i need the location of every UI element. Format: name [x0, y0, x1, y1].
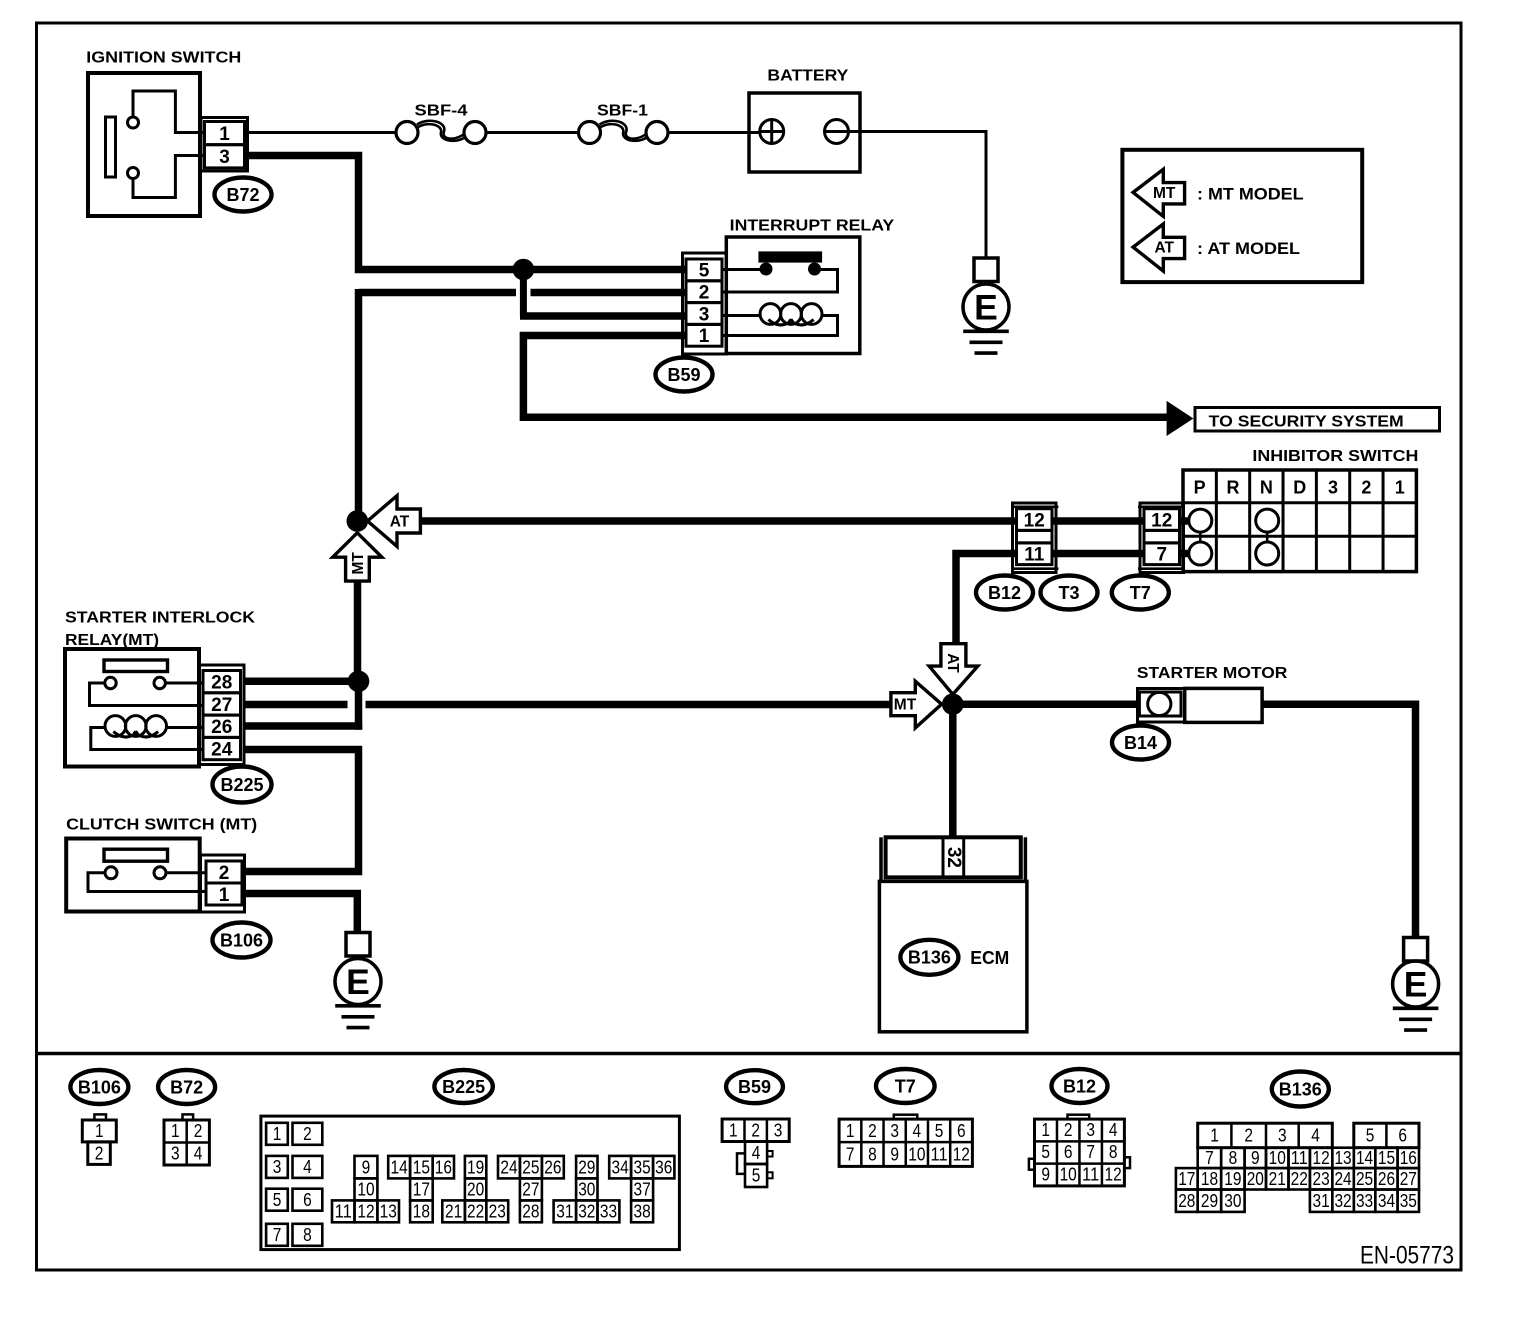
svg-text:11: 11	[335, 1201, 352, 1221]
svg-text:32: 32	[943, 847, 964, 868]
ignition switch box	[88, 73, 200, 216]
wire to relay pin 3	[520, 312, 686, 320]
svg-text:E: E	[1404, 965, 1428, 1005]
svg-text:13: 13	[1334, 1148, 1351, 1168]
svg-text:T3: T3	[1058, 583, 1079, 603]
svg-text:3: 3	[171, 1143, 180, 1163]
svg-text:B136: B136	[908, 948, 951, 968]
svg-text:11: 11	[930, 1144, 947, 1164]
svg-text:33: 33	[600, 1201, 617, 1221]
wire junction down to ECM pin 32	[949, 704, 957, 838]
clutch switch contact wiring	[166, 871, 206, 874]
svg-text:18: 18	[1201, 1169, 1218, 1189]
connector spacer cell	[1144, 530, 1180, 543]
connector T7 shell	[1140, 503, 1184, 573]
wire ignition pin3 down and to relay pin 5	[245, 156, 687, 270]
connector B225 pin 28	[203, 671, 241, 693]
junction node AT/MT (left)	[347, 510, 369, 532]
AT arrow (right junction, pointing down)	[929, 644, 978, 695]
svg-text:5: 5	[752, 1166, 761, 1186]
svg-text:11: 11	[1291, 1148, 1308, 1168]
svg-text:STARTER MOTOR: STARTER MOTOR	[1137, 665, 1288, 682]
svg-text:9: 9	[1251, 1148, 1260, 1168]
svg-text:B106: B106	[220, 930, 263, 950]
wire B12 pin12 to T7 pin12	[1052, 517, 1144, 525]
svg-text:7: 7	[1156, 545, 1167, 566]
connector B72 pin 3	[205, 145, 245, 168]
svg-text:12: 12	[1105, 1164, 1122, 1184]
svg-text:27: 27	[211, 695, 232, 716]
svg-text:22: 22	[467, 1201, 484, 1221]
svg-text:19: 19	[1224, 1169, 1241, 1189]
wire relay pin2 to AT/MT junction vertical	[359, 289, 517, 517]
panel connector B136 row 3	[1176, 1168, 1198, 1189]
svg-text:2: 2	[1064, 1120, 1073, 1140]
svg-text:35: 35	[1400, 1191, 1417, 1211]
svg-text:25: 25	[522, 1157, 539, 1177]
wire to relay pin 2 (right part)	[531, 289, 687, 297]
connector label T3	[1041, 576, 1098, 610]
interrupt relay contact bar	[758, 251, 822, 262]
svg-text:SBF-1: SBF-1	[597, 102, 648, 119]
svg-text:17: 17	[413, 1180, 430, 1200]
svg-text:T7: T7	[1130, 583, 1151, 603]
svg-text:12: 12	[1024, 510, 1045, 531]
svg-text:7: 7	[846, 1144, 855, 1164]
panel connector B225 pins 14-18	[388, 1156, 410, 1179]
svg-text:1: 1	[1395, 477, 1405, 497]
svg-text:12: 12	[1313, 1148, 1330, 1168]
battery positive terminal	[760, 120, 784, 144]
svg-text:38: 38	[634, 1201, 651, 1221]
svg-text:29: 29	[578, 1157, 595, 1177]
separator line between schematic and connector panel	[38, 1052, 1460, 1056]
svg-text:5: 5	[699, 261, 710, 282]
ECM body	[879, 881, 1027, 1031]
svg-text:20: 20	[467, 1180, 484, 1200]
interrupt relay box	[726, 237, 860, 354]
svg-text:29: 29	[1201, 1191, 1218, 1211]
svg-text:P: P	[1194, 477, 1206, 497]
battery negative terminal	[825, 120, 849, 144]
starter motor body	[1185, 688, 1262, 722]
svg-text:5: 5	[935, 1121, 944, 1141]
panel connector B225 pins 34-38	[609, 1156, 631, 1179]
panel connector B59 pin 4	[745, 1142, 767, 1165]
svg-text:7: 7	[1205, 1148, 1214, 1168]
interlock relay contact points	[105, 677, 116, 688]
connector B225 shell	[199, 665, 245, 765]
wire relay pin 24 to clutch switch pin 2	[244, 750, 359, 872]
panel connector B72 tab	[183, 1114, 194, 1120]
svg-text:23: 23	[1313, 1169, 1330, 1189]
svg-text:12: 12	[357, 1201, 374, 1221]
svg-text:1: 1	[219, 124, 230, 145]
svg-text:9: 9	[1041, 1164, 1050, 1184]
panel connector B106 pin 2	[88, 1142, 111, 1165]
svg-text:15: 15	[1378, 1148, 1395, 1168]
svg-text:10: 10	[1060, 1164, 1077, 1184]
svg-text:20: 20	[1247, 1169, 1264, 1189]
wire starter motor to ground	[1262, 704, 1415, 938]
svg-text:26: 26	[1378, 1169, 1395, 1189]
svg-text:INHIBITOR SWITCH: INHIBITOR SWITCH	[1252, 448, 1418, 465]
svg-text:4: 4	[752, 1143, 761, 1163]
interlock relay coil	[167, 726, 204, 729]
legend MT arrow	[1133, 169, 1185, 216]
svg-text:9: 9	[362, 1157, 371, 1177]
svg-text:28: 28	[1178, 1191, 1195, 1211]
svg-text:: AT MODEL: : AT MODEL	[1197, 240, 1300, 258]
svg-text:2: 2	[751, 1120, 760, 1140]
panel connector B136 row 2	[1198, 1148, 1222, 1168]
connector B59 pin 3	[686, 303, 722, 325]
panel connector T7 tab	[894, 1115, 918, 1119]
svg-text:8: 8	[868, 1144, 877, 1164]
svg-text:BATTERY: BATTERY	[767, 68, 848, 85]
svg-text:R: R	[1227, 477, 1240, 497]
connector label B72	[215, 178, 272, 212]
svg-text:15: 15	[413, 1157, 430, 1177]
connector label B106 (panel)	[70, 1070, 128, 1104]
svg-text:1: 1	[1210, 1126, 1219, 1146]
svg-text:9: 9	[890, 1144, 899, 1164]
svg-text:CLUTCH SWITCH (MT): CLUTCH SWITCH (MT)	[66, 817, 257, 834]
panel connector B225 pins 24-28	[498, 1156, 520, 1179]
svg-text:27: 27	[1400, 1169, 1417, 1189]
svg-text:8: 8	[1229, 1148, 1238, 1168]
connector label B106	[213, 923, 271, 958]
svg-text:10: 10	[908, 1144, 925, 1164]
panel connector B225 pins 1-8	[266, 1123, 288, 1145]
svg-text:13: 13	[380, 1201, 397, 1221]
clutch switch contact bar	[104, 849, 168, 861]
svg-text:30: 30	[1224, 1191, 1241, 1211]
inhibitor switch table	[1183, 470, 1416, 572]
connector label B14	[1112, 726, 1169, 760]
svg-text:33: 33	[1356, 1191, 1373, 1211]
svg-text:RELAY(MT): RELAY(MT)	[65, 632, 159, 649]
svg-text:6: 6	[303, 1190, 312, 1210]
svg-text:1: 1	[729, 1120, 738, 1140]
svg-text:ECM: ECM	[970, 948, 1009, 968]
svg-text:14: 14	[1356, 1148, 1373, 1168]
junction node starter/ECM	[942, 693, 964, 715]
panel connector B106 pin 1	[82, 1120, 116, 1142]
ground left E circle	[335, 959, 381, 1005]
wire battery to ground	[849, 132, 987, 260]
svg-text:31: 31	[1313, 1191, 1330, 1211]
panel connector B225 pins 29-33	[576, 1156, 597, 1179]
svg-text:INTERRUPT RELAY: INTERRUPT RELAY	[730, 217, 895, 234]
inhibitor switch N contacts	[1256, 509, 1279, 532]
svg-text:5: 5	[273, 1190, 282, 1210]
svg-text:1: 1	[846, 1121, 855, 1141]
svg-text:SBF-4: SBF-4	[415, 102, 468, 119]
ignition switch internal wire to pin 1	[133, 91, 205, 133]
connector label B225	[213, 767, 272, 803]
svg-text:MT: MT	[1153, 185, 1176, 202]
svg-text:6: 6	[1398, 1126, 1407, 1146]
ignition switch internal wire to pin 3	[133, 156, 205, 198]
svg-text:B12: B12	[988, 583, 1021, 603]
svg-text:4: 4	[1311, 1126, 1320, 1146]
clutch switch box	[66, 839, 200, 912]
svg-text:MT: MT	[350, 552, 367, 575]
connector label B12	[976, 576, 1033, 610]
svg-text:31: 31	[556, 1201, 573, 1221]
to security system box	[1195, 408, 1440, 432]
connector label B136 (in ECM)	[900, 940, 958, 975]
wire B12 pin11 to T7 pin7	[1052, 550, 1144, 558]
connector B106 pin 2	[206, 861, 242, 883]
connector B225 pin 27	[203, 693, 241, 715]
ignition switch key bar	[106, 117, 116, 177]
svg-text:24: 24	[1334, 1169, 1351, 1189]
connector B14 shell	[1138, 689, 1185, 723]
connector B225 pin 24	[203, 737, 241, 759]
svg-text:MT: MT	[894, 697, 917, 714]
wire SBF-4 to SBF-1	[486, 131, 579, 134]
svg-text:28: 28	[211, 672, 232, 693]
svg-text:21: 21	[1269, 1169, 1286, 1189]
wire relay pin 27 to MT arrow (with crossover break)	[244, 701, 348, 709]
svg-text:1: 1	[171, 1121, 180, 1141]
wire MT junction down to interlock relay area	[354, 581, 362, 682]
wire relay pin 26	[244, 722, 362, 730]
panel connector B12 side tabs	[1029, 1159, 1035, 1170]
ground battery E circle	[963, 284, 1009, 330]
svg-text:AT: AT	[944, 653, 961, 673]
connector label B72 (panel)	[158, 1070, 215, 1104]
wire relay pin 1 to security system	[523, 336, 1168, 418]
svg-text:25: 25	[1356, 1169, 1373, 1189]
wire AT junction to connector B12 pin 12	[420, 517, 1016, 525]
MT arrow (left junction)	[333, 533, 382, 581]
svg-text:1: 1	[95, 1121, 104, 1141]
svg-text:2: 2	[868, 1121, 877, 1141]
svg-text:4: 4	[194, 1143, 203, 1163]
connector B59 pin 5	[686, 259, 722, 281]
ECM connector strip	[886, 837, 1021, 877]
connector label B12 (panel)	[1052, 1069, 1108, 1103]
ground right earth bars	[1393, 1006, 1439, 1010]
svg-text:B59: B59	[667, 365, 700, 385]
svg-text:2: 2	[219, 863, 230, 884]
svg-text:3: 3	[699, 304, 710, 325]
svg-text:: MT MODEL: : MT MODEL	[1197, 185, 1304, 203]
ground battery earth bars	[963, 329, 1009, 333]
panel connector B12 tab	[1068, 1115, 1090, 1119]
svg-text:3: 3	[219, 147, 230, 168]
connector B106 shell	[201, 855, 245, 912]
svg-text:14: 14	[391, 1157, 408, 1177]
svg-text:N: N	[1260, 477, 1273, 497]
svg-text:17: 17	[1178, 1169, 1195, 1189]
svg-text:6: 6	[957, 1121, 966, 1141]
svg-text:1: 1	[273, 1124, 282, 1144]
ground right connector square	[1404, 938, 1428, 962]
wire stub junction down to pin3 wire	[520, 270, 527, 317]
svg-text:E: E	[974, 288, 998, 328]
svg-text:STARTER INTERLOCK: STARTER INTERLOCK	[65, 610, 255, 627]
wire T7 pin12 to inhibitor P	[1180, 517, 1189, 525]
svg-text:27: 27	[522, 1180, 539, 1200]
ECM side brackets	[879, 837, 883, 881]
panel connector B12 grid	[1035, 1119, 1125, 1186]
connector B72 shell	[201, 118, 248, 172]
svg-text:11: 11	[1024, 545, 1045, 566]
wire junction to starter motor	[953, 700, 1140, 708]
svg-text:1: 1	[1041, 1120, 1050, 1140]
wire SBF-1 to battery	[668, 131, 760, 134]
connector B12 pin 11	[1017, 543, 1053, 565]
svg-text:7: 7	[1086, 1142, 1095, 1162]
svg-text:16: 16	[435, 1157, 452, 1177]
svg-text:4: 4	[913, 1121, 922, 1141]
connector label B59	[656, 358, 713, 392]
svg-text:28: 28	[522, 1201, 539, 1221]
panel connector B59 pin 5	[745, 1164, 767, 1187]
svg-text:IGNITION SWITCH: IGNITION SWITCH	[86, 49, 241, 66]
svg-text:B136: B136	[1279, 1079, 1322, 1099]
connector B59 pin 1	[686, 324, 722, 346]
svg-text:TO SECURITY SYSTEM: TO SECURITY SYSTEM	[1209, 413, 1404, 430]
ground left earth bars	[335, 1004, 381, 1008]
svg-text:24: 24	[500, 1157, 517, 1177]
ignition switch contact 2	[128, 168, 139, 179]
ground battery connector square	[974, 258, 998, 282]
svg-text:B72: B72	[170, 1077, 203, 1097]
connector T7 pin 12	[1144, 509, 1180, 531]
svg-text:12: 12	[1151, 510, 1172, 531]
svg-text:1: 1	[219, 885, 230, 906]
svg-text:1: 1	[699, 326, 710, 347]
svg-text:19: 19	[467, 1157, 484, 1177]
connector label B136 (panel)	[1272, 1072, 1329, 1107]
svg-text:2: 2	[699, 283, 710, 304]
svg-text:EN-05773: EN-05773	[1360, 1242, 1454, 1270]
to security system arrowhead	[1168, 403, 1192, 435]
panel connector B106 tab	[94, 1114, 106, 1120]
connector B106 pin 1	[206, 883, 242, 905]
svg-text:21: 21	[445, 1201, 462, 1221]
svg-text:12: 12	[953, 1144, 970, 1164]
panel connector B136 row 4	[1176, 1190, 1198, 1212]
ground right E circle	[1393, 961, 1439, 1007]
clutch switch contact points	[105, 867, 117, 879]
svg-text:B59: B59	[738, 1077, 771, 1097]
connector B12/T3 shell	[1013, 503, 1057, 573]
svg-text:36: 36	[655, 1157, 672, 1177]
starter interlock relay box	[65, 649, 199, 767]
svg-text:24: 24	[211, 739, 233, 760]
svg-text:23: 23	[489, 1201, 506, 1221]
svg-text:3: 3	[774, 1120, 783, 1140]
interrupt relay contact wiring	[723, 268, 761, 271]
wire B12 pin11 down to AT arrow	[956, 554, 1017, 644]
svg-text:AT: AT	[390, 514, 410, 531]
connector B59 pin 2	[686, 281, 722, 303]
svg-text:B106: B106	[78, 1077, 121, 1097]
svg-text:AT: AT	[1154, 240, 1174, 257]
svg-text:3: 3	[1328, 477, 1338, 497]
svg-text:B72: B72	[226, 185, 259, 205]
panel connector B136 row 1	[1198, 1123, 1333, 1148]
svg-text:5: 5	[1041, 1142, 1050, 1162]
svg-text:8: 8	[1109, 1142, 1118, 1162]
svg-text:7: 7	[273, 1225, 282, 1245]
svg-text:B12: B12	[1063, 1076, 1096, 1096]
wire T7 pin7 to inhibitor P	[1180, 550, 1189, 558]
svg-text:3: 3	[273, 1157, 282, 1177]
AT arrow (left junction)	[368, 496, 421, 547]
interlock relay contact bar	[104, 660, 168, 672]
svg-text:37: 37	[634, 1180, 651, 1200]
connector label B59 (panel)	[726, 1070, 783, 1103]
wire ignition pin1 to fuse SBF-4	[245, 131, 397, 134]
connector B12 pin 12	[1017, 509, 1053, 531]
interlock relay contact wiring	[165, 682, 203, 685]
panel connector B225 pins 9-13	[355, 1156, 378, 1179]
svg-text:10: 10	[357, 1180, 374, 1200]
svg-text:4: 4	[1109, 1120, 1118, 1140]
svg-text:10: 10	[1269, 1148, 1286, 1168]
svg-text:26: 26	[211, 717, 232, 738]
svg-text:3: 3	[1086, 1120, 1095, 1140]
connector T7 pin 7	[1144, 543, 1180, 565]
svg-text:3: 3	[890, 1121, 899, 1141]
wire clutch pin 1 to ground	[245, 894, 358, 934]
svg-text:5: 5	[1366, 1126, 1375, 1146]
connector spacer cell	[1017, 530, 1053, 543]
svg-text:32: 32	[578, 1201, 595, 1221]
panel connector B72 grid	[164, 1120, 209, 1165]
panel connector B225 outline	[261, 1116, 680, 1250]
svg-text:2: 2	[194, 1121, 203, 1141]
connector label B225 (panel)	[434, 1070, 492, 1103]
svg-text:2: 2	[303, 1124, 312, 1144]
MT arrow (right junction, pointing right)	[891, 681, 942, 728]
wire relay pin 28 to junction	[244, 678, 359, 686]
ground left connector square	[346, 933, 370, 957]
svg-text:2: 2	[95, 1144, 104, 1164]
svg-text:D: D	[1293, 477, 1306, 497]
svg-text:11: 11	[1082, 1164, 1099, 1184]
panel connector B59 row 1-3	[722, 1119, 789, 1142]
panel connector B59 side tabs	[737, 1153, 745, 1174]
ignition switch contact 1	[128, 117, 139, 128]
svg-text:2: 2	[1361, 477, 1371, 497]
inhibitor switch P contacts	[1189, 509, 1212, 532]
svg-text:22: 22	[1291, 1169, 1308, 1189]
vertical wire through pin27 wire to pin26 wire	[355, 681, 363, 729]
svg-text:32: 32	[1334, 1191, 1351, 1211]
panel connector T7 grid	[839, 1119, 972, 1166]
junction node on pin5 wire	[513, 259, 535, 281]
connector label T7 (panel)	[876, 1069, 935, 1103]
svg-text:34: 34	[612, 1157, 629, 1177]
svg-text:E: E	[346, 962, 370, 1002]
svg-text:2: 2	[1244, 1126, 1253, 1146]
svg-text:T7: T7	[895, 1076, 916, 1096]
connector B72 pin 1	[205, 122, 245, 145]
interrupt relay coil	[723, 314, 761, 317]
svg-text:3: 3	[1278, 1126, 1287, 1146]
legend AT arrow	[1133, 224, 1185, 271]
svg-text:16: 16	[1400, 1148, 1417, 1168]
svg-text:30: 30	[578, 1180, 595, 1200]
